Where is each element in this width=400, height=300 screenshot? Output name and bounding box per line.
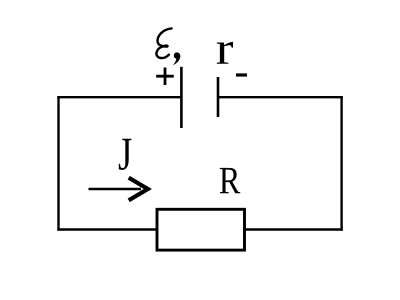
- label r (internal resistance): [217, 42, 233, 64]
- wire bottom-right segment: [244, 228, 343, 230]
- battery cell: positive plate (long): [180, 67, 183, 128]
- wire top-left segment: [57, 96, 181, 98]
- label - (negative terminal): [236, 73, 247, 76]
- label epsilon knot: [164, 44, 169, 48]
- label epsilon (EMF value): [156, 28, 171, 58]
- wire right segment: [340, 96, 342, 231]
- current direction arrow: [89, 178, 148, 201]
- wire top-right segment: [218, 96, 343, 98]
- label R: [220, 168, 241, 193]
- resistor R (box): [157, 209, 245, 250]
- label J (current): [119, 139, 132, 170]
- wire bottom-left segment: [57, 228, 157, 230]
- wire left segment: [57, 96, 59, 231]
- label comma after epsilon: [173, 52, 181, 65]
- label + (positive terminal): [156, 68, 174, 86]
- battery cell: negative plate (short): [217, 77, 220, 117]
